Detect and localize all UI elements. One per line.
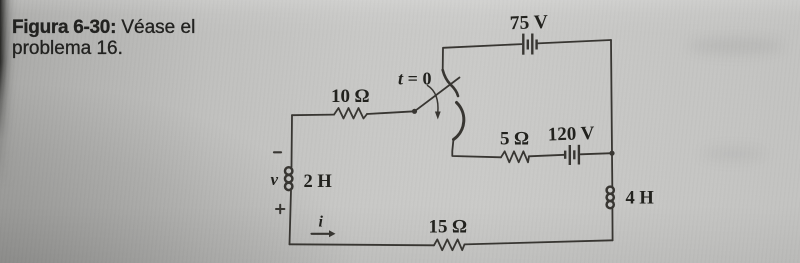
wire top loop right segment — [538, 40, 612, 43]
svg-text:4 H: 4 H — [626, 189, 655, 209]
svg-text:15 Ω: 15 Ω — [429, 217, 468, 238]
svg-text:2 H: 2 H — [304, 172, 333, 192]
wire right vertical middle — [611, 40, 612, 187]
wire top-left horizontal — [292, 114, 334, 117]
resistor 10ohm — [334, 108, 367, 119]
inductor 4H — [607, 187, 614, 209]
resistor 15ohm — [434, 239, 465, 250]
wire right vertical lower — [611, 209, 613, 241]
wire 5ohm to battery 120V — [529, 155, 565, 157]
wire bottom right — [465, 240, 613, 244]
svg-text:10 Ω: 10 Ω — [331, 86, 370, 107]
wire bottom left — [290, 244, 435, 245]
svg-text:120 V: 120 V — [547, 123, 595, 146]
switch blade — [415, 78, 460, 112]
battery 75V — [523, 34, 536, 55]
wire resistor to switch pole — [367, 111, 415, 114]
battery 120V — [565, 145, 579, 165]
wire left vertical lower — [290, 191, 292, 245]
svg-text:75 V: 75 V — [509, 12, 548, 34]
switch pole node — [412, 109, 417, 114]
wire battery 120V to junction — [581, 153, 613, 154]
inductor 2H — [285, 167, 292, 190]
figure caption — [12, 18, 195, 59]
svg-text:5 Ω: 5 Ω — [500, 129, 529, 150]
minus sign of v — [274, 151, 281, 153]
svg-text:i: i — [319, 214, 324, 231]
wire top loop left segment — [443, 44, 522, 70]
wire switch to middle branch — [452, 139, 501, 157]
plus sign of v — [276, 205, 284, 213]
current arrow i — [312, 230, 336, 237]
switch top contact arc — [443, 70, 458, 96]
switch motion arrow — [428, 86, 439, 114]
resistor 5ohm — [501, 151, 529, 162]
wire left vertical upper — [291, 115, 294, 167]
node junction right — [609, 151, 614, 156]
svg-text:t = 0: t = 0 — [398, 69, 432, 89]
switch bottom contact arc — [454, 103, 464, 140]
svg-text:v: v — [271, 170, 279, 189]
